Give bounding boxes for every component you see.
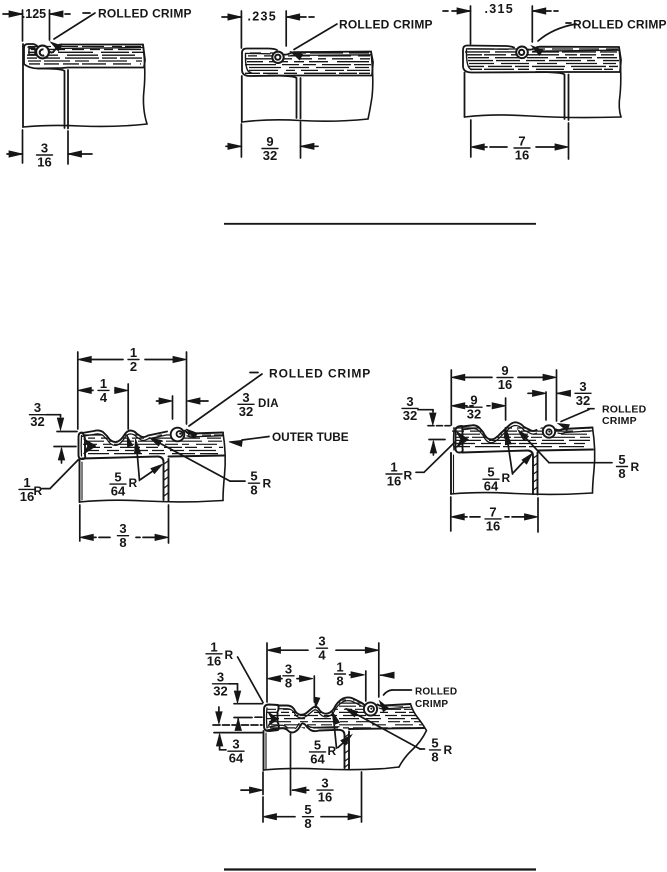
fig4 label 1/16 R xyxy=(19,475,43,504)
fig5 cap chevron cross-section xyxy=(457,432,468,447)
fig6 cap chevron cross-section xyxy=(269,713,278,726)
svg-text:64: 64 xyxy=(310,751,325,766)
fig4 left dim 3/32 label xyxy=(30,400,46,429)
svg-text:R: R xyxy=(328,744,337,758)
fig6 dim 1/8 arrows xyxy=(350,672,395,679)
fig4 leader 1/16 R xyxy=(42,460,79,489)
svg-text:64: 64 xyxy=(484,479,499,494)
svg-text:16: 16 xyxy=(318,790,332,805)
fig2 dim .235 extension lines xyxy=(241,11,286,48)
svg-text:ROLLED CRIMP: ROLLED CRIMP xyxy=(98,7,192,21)
svg-text:R: R xyxy=(502,471,511,485)
fig6 dim 3/8 extension line with arrow xyxy=(314,676,320,709)
fig6 torn edge right xyxy=(399,704,427,767)
fig5 dim 3/32 crimp arrows xyxy=(528,390,571,396)
svg-text:R: R xyxy=(263,477,272,491)
fig6 band bottom edge right of wall xyxy=(349,728,424,729)
fig5 label 1/16 R xyxy=(386,460,413,489)
fig3 band hatch texture xyxy=(465,49,619,69)
fig5 outer tube band profile xyxy=(462,422,537,442)
fig5 inner tube wall xyxy=(528,451,538,495)
fig4 outer tube band outline xyxy=(82,430,167,445)
svg-text:64: 64 xyxy=(229,751,244,766)
fig3 label ROLLED CRIMP xyxy=(573,18,667,32)
fig6 dim text 3/8 xyxy=(283,661,294,690)
svg-text:.235: .235 xyxy=(248,10,278,24)
svg-text:9: 9 xyxy=(501,363,508,378)
fig3 tube body outline xyxy=(465,47,622,118)
fig4 dim 3/8 extension lines xyxy=(80,505,169,543)
svg-text:R: R xyxy=(631,460,640,474)
fig6 dim text 1/8 xyxy=(335,660,346,689)
fig5 dim 9/16 arrows and line xyxy=(451,374,556,380)
fig2 dim 9/32 extension lines xyxy=(241,122,300,158)
fig5 dim text 9/32 xyxy=(466,393,482,422)
fig5 leader 5/8 R xyxy=(518,430,640,481)
fig3 dim text .315 xyxy=(485,2,515,16)
fig5 dim 7/16 extension lines xyxy=(451,497,538,532)
fig3 rolled crimp roll xyxy=(516,47,528,59)
svg-text:32: 32 xyxy=(213,683,227,698)
svg-text:16: 16 xyxy=(486,518,500,533)
fig4 rolled crimp roll xyxy=(171,428,185,442)
fig6 inner tube wall xyxy=(339,730,349,769)
svg-text:32: 32 xyxy=(263,148,277,163)
fig6 left dim 3/32 label xyxy=(213,669,229,698)
fig6 outer tube top profile xyxy=(278,697,365,717)
fig6 left dim 3/64 ticks and arrows xyxy=(213,707,262,750)
fig4 inner tube body outline xyxy=(80,433,226,503)
svg-text:2: 2 xyxy=(130,359,137,374)
fig1 dim .125 extension lines xyxy=(23,10,50,41)
svg-text:8: 8 xyxy=(304,816,311,831)
fig2 tube body outline xyxy=(242,52,373,123)
svg-text:ROLLED CRIMP: ROLLED CRIMP xyxy=(573,18,667,32)
fig4 dim 1/2 arrows and line xyxy=(78,356,187,362)
fig5 dim text 9/16 xyxy=(497,363,513,392)
svg-text:ROLLED: ROLLED xyxy=(415,687,457,698)
svg-text:R: R xyxy=(444,743,453,757)
svg-text:8: 8 xyxy=(618,466,625,481)
svg-text:3: 3 xyxy=(119,521,126,536)
fig4 leader 5/8 R xyxy=(150,438,272,498)
svg-text:9: 9 xyxy=(266,134,273,149)
fig6 dim text 3/16 xyxy=(317,776,333,805)
svg-text:3: 3 xyxy=(34,400,41,415)
fig4 dim 1/4 extension line xyxy=(127,384,132,447)
fig6 dim 3/4 arrows and line xyxy=(267,647,379,653)
fig6 dim 5/8 arrows xyxy=(263,814,362,820)
fig6 inner tube body outline xyxy=(264,731,400,770)
svg-text:4: 4 xyxy=(100,390,108,405)
svg-text:1: 1 xyxy=(23,475,30,490)
fig1 tube body outline xyxy=(23,44,147,127)
fig3 inner tube wall xyxy=(536,72,569,120)
fig5 dim 9/32 arrows xyxy=(451,403,505,409)
fig6 dim 1/8 extension lines xyxy=(365,671,367,701)
fig1 outer tube band outline xyxy=(24,44,145,69)
svg-text:OUTER TUBE: OUTER TUBE xyxy=(272,430,349,444)
fig6 leader 5/8 R xyxy=(346,708,453,764)
fig6 left dim 3/32 ticks and arrows xyxy=(229,684,263,731)
svg-text:64: 64 xyxy=(111,484,126,499)
fig3 dim 7/16 extension lines xyxy=(471,120,569,159)
fig6 leader 5/64 R xyxy=(310,711,352,766)
svg-text:32: 32 xyxy=(403,408,417,423)
fig5 inner tube body outline xyxy=(451,428,595,495)
svg-text:3: 3 xyxy=(242,390,249,405)
svg-text:3: 3 xyxy=(406,394,413,409)
fig4 band bottom edge right of wall xyxy=(169,456,225,457)
svg-text:R: R xyxy=(129,476,138,490)
fig1 dim text .125 xyxy=(22,7,46,21)
fig5 label ROLLED CRIMP xyxy=(602,404,647,428)
svg-text:32: 32 xyxy=(239,404,253,419)
svg-text:R: R xyxy=(34,484,43,498)
fig3 leader to rolled crimp xyxy=(532,23,577,55)
fig6 dim 3/16 arrows xyxy=(241,787,309,793)
svg-text:32: 32 xyxy=(30,414,44,429)
fig2 rolled crimp roll xyxy=(272,52,283,63)
fig6 dim 3/4 extension lines xyxy=(267,643,379,702)
fig5 rolled crimp roll xyxy=(543,425,555,437)
fig4 left dim 3/32 ticks and arrows xyxy=(46,415,77,463)
svg-text:ROLLED: ROLLED xyxy=(602,404,647,416)
fig2 inner tube wall xyxy=(268,76,301,119)
fig1 dim 3/16 arrows xyxy=(7,151,92,157)
fig4 leader to outer tube xyxy=(229,437,269,447)
fig6 cap at tube end xyxy=(264,705,279,732)
fig5 dim 7/16 arrows xyxy=(451,514,538,520)
svg-text:3: 3 xyxy=(579,379,586,394)
fig1 label ROLLED CRIMP xyxy=(98,7,192,21)
fig4 dim 3/32 dia extension line xyxy=(172,396,174,419)
svg-text:5: 5 xyxy=(487,465,494,480)
fig5 cap at tube end xyxy=(454,426,463,453)
fig2 dim 9/32 arrows xyxy=(226,143,318,149)
svg-text:3: 3 xyxy=(41,141,48,156)
fig5 left dim 3/32 ticks and arrows xyxy=(418,410,450,455)
fig5 dim 9/16 extension lines xyxy=(451,370,556,425)
fig6 wall hatch xyxy=(345,734,349,767)
fig6 dim text 5/8 xyxy=(303,802,314,831)
fig4 label ROLLED CRIMP xyxy=(269,367,371,381)
horizontal separator line upper xyxy=(224,223,536,225)
fig6 leader 1/16 R xyxy=(238,657,263,703)
fig4 band bottom edge xyxy=(82,457,158,459)
svg-text:3: 3 xyxy=(232,737,239,752)
fig4 dim 1/2 extension lines xyxy=(78,352,187,429)
fig4 label 3/32 DIA xyxy=(238,390,279,419)
fig5 dim text 3/32 crimp xyxy=(575,379,591,408)
fig4 dim 1/4 arrows and line xyxy=(78,387,128,393)
fig2 dim text 9/32 xyxy=(262,134,278,163)
svg-text:8: 8 xyxy=(285,675,292,690)
svg-text:1: 1 xyxy=(336,660,343,675)
fig1 rolled crimp roll xyxy=(36,46,49,59)
fig2 dim .235 arrows xyxy=(222,14,314,20)
horizontal separator line lower xyxy=(224,868,536,870)
fig4 wall hatch xyxy=(164,461,168,496)
fig4 band hatch texture xyxy=(83,435,223,454)
fig5 dim text 7/16 xyxy=(485,504,501,533)
svg-text:8: 8 xyxy=(336,674,343,689)
svg-text:9: 9 xyxy=(470,393,477,408)
fig5 band top edge right of crimp xyxy=(556,428,593,434)
svg-text:3: 3 xyxy=(321,776,328,791)
svg-text:5: 5 xyxy=(314,737,321,752)
fig5 band hatch texture xyxy=(452,428,591,447)
fig1 cap inner mark xyxy=(29,49,35,55)
fig6 band top edge right of crimp xyxy=(378,704,411,709)
svg-text:16: 16 xyxy=(37,155,51,170)
svg-text:7: 7 xyxy=(518,134,525,149)
fig5 left dim 3/32 label xyxy=(402,394,418,423)
fig6 outer tube bottom profile wave xyxy=(266,723,339,732)
fig6 leader to rolled crimp xyxy=(380,690,412,712)
svg-text:1: 1 xyxy=(130,345,137,360)
fig4 leader 5/64 R xyxy=(110,439,163,499)
svg-text:32: 32 xyxy=(467,407,481,422)
svg-text:3: 3 xyxy=(285,661,292,676)
fig4 cap at tube end xyxy=(79,433,86,460)
fig6 dim 3/16 extension lines xyxy=(263,734,291,795)
fig6 band hatch texture xyxy=(266,700,425,728)
fig6 rolled crimp roll xyxy=(364,702,377,715)
fig4 inner tube wall xyxy=(158,457,169,501)
svg-text:1: 1 xyxy=(100,376,107,391)
svg-text:16: 16 xyxy=(498,377,512,392)
fig1 leader to rolled crimp xyxy=(51,13,96,51)
svg-text:5: 5 xyxy=(114,470,121,485)
svg-text:3: 3 xyxy=(217,669,224,684)
fig4 dim text 3/8 xyxy=(118,521,129,550)
svg-text:7: 7 xyxy=(489,504,496,519)
fig3 dim .315 extension lines xyxy=(471,6,533,44)
svg-text:5: 5 xyxy=(431,735,438,750)
fig4 dim 3/8 arrows xyxy=(80,534,169,540)
fig3 dim 7/16 arrows xyxy=(471,144,569,150)
fig2 band hatch texture xyxy=(245,53,371,73)
svg-text:ROLLED CRIMP: ROLLED CRIMP xyxy=(339,18,433,32)
svg-text:DIA: DIA xyxy=(258,398,279,410)
fig2 leader to rolled crimp xyxy=(291,24,338,60)
fig4 band top edge right of crimp xyxy=(185,431,223,437)
svg-text:4: 4 xyxy=(318,648,326,663)
svg-text:3: 3 xyxy=(318,634,325,649)
svg-text:1: 1 xyxy=(390,460,397,475)
fig5 leader 5/64 R xyxy=(483,431,533,494)
fig5 leader to rolled crimp xyxy=(558,409,594,431)
fig6 label 1/16 R xyxy=(206,639,234,668)
fig2 outer tube band outline xyxy=(242,49,373,77)
svg-text:16: 16 xyxy=(20,489,34,504)
svg-text:.315: .315 xyxy=(485,2,515,16)
fig4 cap chevron cross-section xyxy=(84,439,96,454)
fig5 dim 9/32 extension line xyxy=(504,398,509,438)
fig6 label ROLLED CRIMP xyxy=(415,687,457,711)
fig6 dim 5/8 extension lines xyxy=(263,772,362,822)
svg-text:ROLLED CRIMP: ROLLED CRIMP xyxy=(269,367,371,381)
fig1 dim .125 arrows xyxy=(3,11,70,17)
svg-text:1: 1 xyxy=(210,639,217,654)
svg-text:16: 16 xyxy=(515,148,529,163)
svg-text:CRIMP: CRIMP xyxy=(415,699,448,710)
fig4 dim text 1/4 xyxy=(98,376,109,405)
fig1 inner tube wall xyxy=(38,69,68,129)
svg-text:R: R xyxy=(404,469,413,483)
fig5 wall hatch xyxy=(534,455,538,490)
fig4 label OUTER TUBE xyxy=(272,430,349,444)
fig3 outer tube band outline xyxy=(463,46,621,73)
svg-text:5: 5 xyxy=(304,802,311,817)
fig1 band hatch texture xyxy=(27,47,143,64)
fig3 dim .315 arrows xyxy=(443,8,558,14)
svg-text:32: 32 xyxy=(576,393,590,408)
fig4 dim 3/32 dia arrows xyxy=(157,398,209,404)
svg-text:8: 8 xyxy=(119,535,126,550)
fig2 band inner cap line xyxy=(245,54,251,73)
fig3 band inner cap line xyxy=(466,49,472,70)
fig5 leader 1/16 R xyxy=(416,442,456,473)
fig6 label 3/64 xyxy=(228,737,244,766)
fig1 dim text 3/16 xyxy=(37,141,53,170)
fig5 dim 3/32 crimp extension line xyxy=(545,392,547,420)
svg-text:16: 16 xyxy=(207,653,221,668)
fig5 band bottom edge xyxy=(462,450,593,453)
svg-text:8: 8 xyxy=(250,483,257,498)
fig1 dim 3/16 extension lines xyxy=(23,130,69,164)
svg-text:CRIMP: CRIMP xyxy=(602,415,637,427)
svg-text:.125: .125 xyxy=(22,7,46,21)
fig4 leader to rolled crimp xyxy=(186,373,262,439)
svg-text:R: R xyxy=(225,648,234,662)
fig6 dim text 3/4 xyxy=(317,634,328,663)
svg-text:16: 16 xyxy=(387,474,401,489)
fig2 dim text .235 xyxy=(248,10,278,24)
svg-text:8: 8 xyxy=(431,749,438,764)
fig4 dim text 1/2 xyxy=(128,345,139,374)
fig6 dim 3/8 arrows and line xyxy=(267,676,313,682)
fig2 label ROLLED CRIMP xyxy=(339,18,433,32)
svg-text:5: 5 xyxy=(618,452,625,467)
fig3 dim text 7/16 xyxy=(514,134,530,163)
svg-text:5: 5 xyxy=(250,469,257,484)
